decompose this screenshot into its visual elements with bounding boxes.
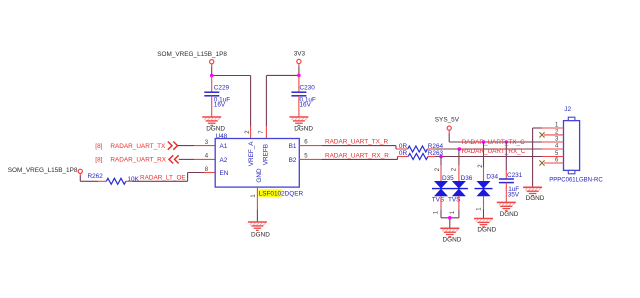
ground DGND under D35 D36 <box>440 228 461 243</box>
svg-text:2: 2 <box>435 167 441 171</box>
svg-text:R262: R262 <box>88 173 104 180</box>
pin 3 stub J2 <box>542 141 564 143</box>
svg-text:SYS_5V: SYS_5V <box>435 116 460 123</box>
wire R263 to J2 pin 5 <box>428 156 542 158</box>
svg-text:35V: 35V <box>508 191 520 198</box>
pin 5 stub J2 <box>542 156 564 158</box>
svg-text:1: 1 <box>450 210 456 214</box>
power symbol SOM_VREG_L15B_1P8 (top rail) <box>157 51 227 76</box>
svg-text:6: 6 <box>304 140 308 146</box>
svg-text:RADAR_UART_TX_C: RADAR_UART_TX_C <box>462 139 525 146</box>
resistor R263 <box>399 150 444 160</box>
ground DGND under U48 <box>248 222 270 239</box>
svg-text:GND: GND <box>256 168 263 183</box>
svg-text:DGND: DGND <box>251 232 270 239</box>
junction dot left rail <box>210 74 214 78</box>
pin 7 stub VREFB <box>265 126 267 139</box>
svg-text:LSF0102DQER: LSF0102DQER <box>259 190 304 197</box>
wire RADAR_UART_TX to A1 <box>178 145 195 147</box>
capacitor C230 <box>291 84 316 108</box>
svg-text:RADAR_UART_TX_R: RADAR_UART_TX_R <box>325 139 388 146</box>
wire D35 D36 ground bus <box>441 218 459 229</box>
power symbol 3V3 <box>294 51 306 76</box>
svg-text:[8]: [8] <box>95 157 102 164</box>
svg-text:DGND: DGND <box>477 226 496 233</box>
wire power to R262 <box>80 180 98 182</box>
svg-text:C230: C230 <box>300 84 316 91</box>
transistor D36 TVS diode <box>448 175 473 203</box>
svg-text:RADAR_UART_RX_C: RADAR_UART_RX_C <box>462 148 526 155</box>
wire SYS_5V to J2 pin 3 <box>449 141 542 143</box>
svg-text:5: 5 <box>304 154 308 160</box>
svg-text:A2: A2 <box>220 157 228 164</box>
net label [8] RADAR_UART_RX <box>95 157 166 164</box>
svg-text:RADAR_UART_RX_R: RADAR_UART_RX_R <box>325 153 389 160</box>
resistor R264 <box>399 143 444 152</box>
svg-text:DGND: DGND <box>443 236 462 243</box>
wire C231 vertical <box>505 142 507 178</box>
ground DGND under C231 <box>497 202 519 218</box>
svg-text:DGND: DGND <box>526 195 545 202</box>
pin 5 stub B2 <box>299 158 321 160</box>
svg-text:RADAR_LT_OE: RADAR_LT_OE <box>140 175 186 182</box>
pin 1 stub GND <box>256 187 258 209</box>
capacitor C231 <box>499 172 523 199</box>
ground DGND under C230 <box>289 117 313 132</box>
wire R262 to EN <box>126 173 204 182</box>
wire D34 bottom <box>483 196 485 218</box>
svg-text:1: 1 <box>433 210 439 214</box>
svg-text:VREFB: VREFB <box>263 144 270 165</box>
wire rail to C230 <box>298 75 300 91</box>
svg-text:16V: 16V <box>300 102 312 109</box>
wire J2 pin 1 to ground <box>533 128 542 187</box>
wire C231 to ground <box>505 183 507 203</box>
svg-text:D34: D34 <box>486 174 498 181</box>
wire top-left rail to VREF_A <box>212 76 251 127</box>
wire D35 bottom <box>440 196 442 218</box>
junction dot D35 top <box>439 155 443 159</box>
capacitor C229 <box>204 84 230 108</box>
transistor D34 TVS diode <box>475 174 499 197</box>
ground DGND under D34 <box>474 219 497 234</box>
svg-text:DGND: DGND <box>294 125 313 132</box>
net label [8] RADAR_UART_TX <box>95 143 166 150</box>
svg-text:DGND: DGND <box>500 211 519 218</box>
svg-text:B1: B1 <box>289 143 297 150</box>
svg-text:SOM_VREG_L15B_1P8: SOM_VREG_L15B_1P8 <box>157 51 227 58</box>
wire B1 to R264 <box>322 146 408 149</box>
junction dot D34 top <box>482 140 486 144</box>
pin 3 stub A1 <box>194 145 215 147</box>
svg-text:C231: C231 <box>507 172 523 179</box>
svg-text:SOM_VREG_L15B_1P8: SOM_VREG_L15B_1P8 <box>8 167 78 174</box>
svg-text:PPPC061LGBN-RC: PPPC061LGBN-RC <box>549 178 603 184</box>
svg-text:TVS: TVS <box>432 197 444 204</box>
no-connect X pin 2 <box>539 132 544 137</box>
power symbol SOM_VREG_L15B_1P8 (EN pull-up) <box>8 167 83 181</box>
wire D35 vertical <box>440 157 442 182</box>
ground DGND under C229 <box>202 117 225 132</box>
transistor D35 TVS diode <box>432 175 454 203</box>
wire rail to C229 <box>211 76 213 92</box>
svg-text:[8]: [8] <box>95 143 102 150</box>
svg-text:J2: J2 <box>564 106 571 113</box>
svg-text:B2: B2 <box>289 157 297 164</box>
svg-text:RADAR_UART_TX: RADAR_UART_TX <box>110 143 166 150</box>
op-amp U48 LSF0102DQER body <box>215 133 299 187</box>
pin 2 stub J2 <box>544 134 564 136</box>
wire RADAR_UART_RX to A2 <box>179 158 194 160</box>
wire 3V3 rail to VREFB <box>266 75 299 126</box>
value label LSF0102DQER with highlight <box>258 189 303 197</box>
pin 2 stub VREF_A <box>250 126 252 139</box>
wire C230 to ground <box>298 96 300 117</box>
svg-text:3: 3 <box>205 140 209 146</box>
port chevron RADAR_UART_TX (right) <box>168 142 178 150</box>
svg-text:10K: 10K <box>128 176 140 183</box>
svg-text:C229: C229 <box>214 84 230 91</box>
junction dot C231 top <box>505 140 509 144</box>
junction dot D36 top <box>458 147 462 151</box>
svg-text:U48: U48 <box>216 133 228 140</box>
svg-text:EN: EN <box>220 170 229 177</box>
svg-text:VREF_A: VREF_A <box>248 141 255 167</box>
svg-text:D36: D36 <box>461 175 473 182</box>
junction dot TVS ground <box>448 216 452 220</box>
svg-text:3V3: 3V3 <box>294 51 306 58</box>
svg-text:2: 2 <box>245 130 251 134</box>
pin 8 stub EN <box>204 172 215 174</box>
svg-text:DGND: DGND <box>206 125 225 132</box>
wire D36 bottom <box>458 196 460 218</box>
wire D36 vertical <box>458 149 460 181</box>
pin 4 stub J2 <box>542 148 564 150</box>
svg-text:2: 2 <box>452 167 458 171</box>
svg-text:4: 4 <box>205 154 209 160</box>
connector J2 <box>549 106 603 184</box>
svg-text:0R: 0R <box>399 150 408 157</box>
svg-text:1: 1 <box>251 194 257 198</box>
pin 6 stub J2 <box>544 162 564 164</box>
pin 1 stub J2 <box>542 127 564 129</box>
wire GND pin to ground <box>256 209 258 222</box>
pin 4 stub A2 <box>194 158 215 160</box>
svg-text:RADAR_UART_RX: RADAR_UART_RX <box>110 157 166 164</box>
wire R264 to J2 pin 4 <box>427 148 542 150</box>
svg-text:1: 1 <box>477 207 483 211</box>
port chevron RADAR_UART_RX (left) <box>169 155 179 163</box>
resistor R262 <box>88 173 140 184</box>
power symbol SYS_5V <box>435 116 460 142</box>
pin 6 stub B1 <box>299 145 321 147</box>
ground DGND J2 pin 1 <box>523 187 545 202</box>
wire B2 to R263 <box>322 157 409 160</box>
no-connect X pin 6 <box>539 160 544 165</box>
wire C229 to ground <box>211 96 213 117</box>
svg-text:A1: A1 <box>220 143 228 150</box>
junction dot 3V3 rail <box>297 74 301 78</box>
wire D34 vertical <box>483 142 485 181</box>
svg-text:7: 7 <box>259 130 265 134</box>
svg-text:16V: 16V <box>214 102 226 109</box>
